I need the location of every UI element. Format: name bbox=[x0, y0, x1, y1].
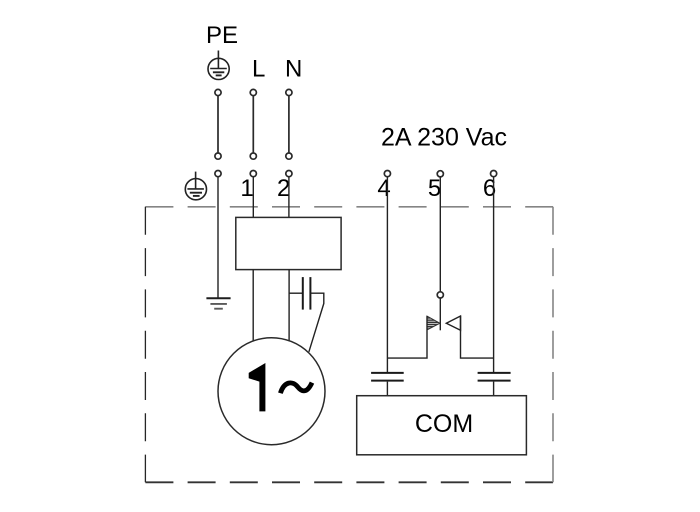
wire capacitor 4 to COM box bbox=[386, 382, 388, 396]
PE plug connector (terminals and link wire) bbox=[215, 89, 221, 176]
capacitor on wire 6 bbox=[478, 373, 511, 381]
L plug connector (terminals and link wire) bbox=[250, 89, 256, 176]
wire PE terminal to internal ground bbox=[217, 177, 219, 298]
svg-text:N: N bbox=[285, 55, 302, 82]
svg-text:PE: PE bbox=[206, 22, 238, 49]
wire node to relay bbox=[439, 298, 441, 330]
svg-text:5: 5 bbox=[428, 175, 441, 202]
wire capacitor to motor bbox=[309, 293, 324, 352]
node circle on wire 5 bbox=[437, 292, 443, 298]
label 1 (motor digit) bbox=[249, 363, 266, 411]
COM box bbox=[357, 396, 527, 455]
svg-text:1: 1 bbox=[240, 175, 253, 202]
wire terminal block to motor (left) bbox=[252, 270, 254, 341]
N plug connector (terminals and link wire) bbox=[286, 89, 292, 176]
wire terminal 5 to node bbox=[439, 177, 441, 292]
motor M (1~) circle bbox=[218, 338, 325, 445]
svg-text:2A 230 Vac: 2A 230 Vac bbox=[381, 124, 507, 152]
enclosure dashed border bbox=[145, 207, 553, 483]
wire terminal 6 to capacitor bbox=[493, 177, 495, 373]
terminal 5 circle bbox=[437, 171, 443, 177]
svg-text:COM: COM bbox=[415, 410, 473, 438]
wire relay left leg to wire 4 bbox=[387, 316, 427, 358]
wire to run capacitor bbox=[289, 292, 303, 294]
terminal 4 circle bbox=[384, 171, 390, 177]
ground symbol bbox=[206, 298, 230, 308]
wire terminal block to motor (right) bbox=[288, 270, 290, 341]
wire terminal 1 to terminal block bbox=[252, 177, 254, 218]
wire terminal 2 to terminal block bbox=[288, 177, 290, 218]
wire relay right leg to wire 6 bbox=[461, 316, 494, 358]
relay left triangle (hatched) bbox=[427, 316, 440, 330]
svg-text:4: 4 bbox=[377, 175, 390, 202]
terminal 6 circle bbox=[491, 171, 497, 177]
capacitor C (motor run capacitor) bbox=[303, 277, 311, 310]
protective earth symbol (enclosure marking) bbox=[185, 172, 206, 200]
relay right triangle (open) bbox=[446, 316, 460, 330]
wire terminal 4 to capacitor bbox=[386, 177, 388, 373]
capacitor on wire 4 bbox=[371, 373, 404, 381]
label ~ (motor tilde) bbox=[280, 383, 312, 394]
svg-text:L: L bbox=[252, 55, 265, 82]
terminal block box bbox=[236, 217, 341, 269]
protective earth symbol (top, on PE line) bbox=[208, 51, 229, 80]
wire capacitor 6 to COM box bbox=[493, 382, 495, 396]
